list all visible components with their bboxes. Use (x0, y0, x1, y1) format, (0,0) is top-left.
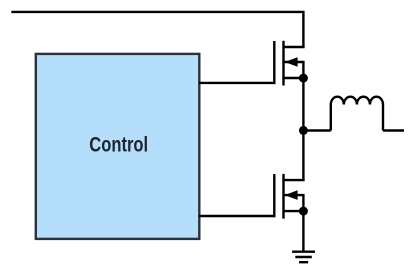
Q1 body arrow (285, 57, 298, 67)
node Q1 source-body junction dot (299, 74, 308, 83)
wire gate drive high side (199, 82, 275, 84)
control block (36, 54, 200, 239)
wire Q2 source to ground (302, 211, 304, 252)
svg-text:Control: Control (89, 133, 148, 157)
Q2 drain stub (284, 179, 305, 181)
Q2 channel bar (282, 174, 284, 219)
wire VIN rail to Q1 drain (11, 12, 303, 48)
wire switch node to Q2 drain (302, 131, 304, 181)
wire gate drive low side (199, 215, 275, 217)
wire inductor output (383, 129, 404, 131)
inductor L1 (331, 97, 383, 131)
transistor Q2 low-side NMOS (274, 174, 308, 219)
wire switch node to inductor (303, 129, 330, 131)
Q1 drain stub (284, 46, 305, 48)
Q2 source stub (284, 210, 304, 212)
transistor Q1 high-side NMOS (274, 41, 308, 86)
node Q2 source-body junction dot (299, 207, 308, 216)
Q2 body wire (284, 195, 304, 211)
Q1 body wire (284, 62, 304, 78)
Q2 gate bar (273, 174, 275, 217)
Q1 channel bar (282, 41, 284, 86)
Q1 gate bar (273, 41, 275, 84)
ground (292, 252, 315, 263)
Q1 source stub (284, 77, 304, 79)
wire Q1 source to switch node (302, 78, 304, 131)
Q2 body arrow (285, 190, 298, 200)
node SW junction dot (299, 126, 308, 135)
